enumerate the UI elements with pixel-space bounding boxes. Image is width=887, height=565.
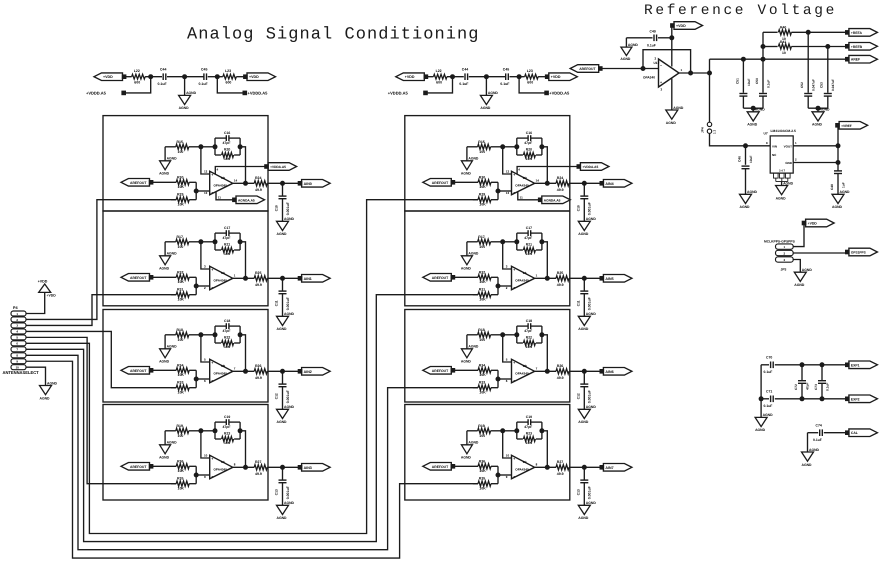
svg-text:R31: R31	[177, 288, 183, 292]
wire V+ pin	[517, 167, 577, 175]
svg-text:R34: R34	[177, 363, 183, 367]
wire JP4 to VIN	[710, 133, 771, 145]
wire VOUT	[793, 145, 838, 147]
svg-text:AGND: AGND	[186, 91, 197, 95]
node junction	[199, 145, 203, 149]
svg-text:−: −	[211, 379, 213, 383]
ground (output, U16D)	[277, 221, 289, 230]
svg-text:10K: 10K	[479, 185, 486, 189]
svg-text:AREFOUT: AREFOUT	[130, 465, 147, 469]
capacitor C13 0.001uF (output, U18C)	[583, 467, 585, 479]
svg-text:R27: R27	[255, 460, 261, 464]
svg-text:AGND: AGND	[586, 501, 597, 505]
svg-text:AGND: AGND	[461, 266, 472, 270]
svg-text:AGND: AGND	[284, 501, 295, 505]
wire pin6 to stage U18D	[26, 200, 478, 534]
resistor R26 49.9 (output, U18B)	[535, 370, 556, 372]
wire JP3 pin1 to +VDD flag	[793, 225, 804, 247]
wire JP3 pin3 to ground	[793, 260, 800, 273]
wire pin3 to stage U16A	[26, 295, 176, 326]
wire to -input	[196, 285, 210, 287]
svg-text:R18: R18	[177, 328, 183, 332]
svg-text:8: 8	[766, 141, 768, 145]
svg-text:10K: 10K	[178, 486, 185, 490]
resistor R33 10K (input, U16B)	[171, 387, 176, 389]
svg-text:R36: R36	[177, 459, 183, 463]
feedback left bar	[214, 233, 216, 250]
svg-text:10K: 10K	[178, 280, 185, 284]
svg-text:AGND: AGND	[840, 190, 851, 194]
wire to +input	[503, 242, 512, 269]
wire to JP4	[709, 73, 711, 122]
power flag AGNDA.A5 (U16D)	[233, 198, 237, 202]
junction	[761, 45, 765, 49]
op-amp U18A OPA4340	[512, 266, 535, 290]
svg-text:C74: C74	[816, 424, 822, 428]
output flag AIN1 (U16A)	[298, 277, 302, 281]
svg-text:AGND: AGND	[802, 463, 813, 467]
flag GPS1PPS	[846, 250, 850, 254]
svg-text:R22: R22	[526, 336, 532, 340]
ground (output, U16C)	[277, 505, 289, 514]
net stub +VDDD.A5 (right, bank B)	[519, 77, 545, 93]
node junction	[501, 240, 505, 244]
svg-text:VIN: VIN	[772, 144, 777, 148]
capacitor C50 0.1uF (ref)	[762, 59, 764, 93]
stage box 4 (bank A)	[103, 405, 268, 501]
op-amp U16C OPA4340	[210, 455, 233, 479]
resistor R35 10K (input, U16C)	[171, 483, 176, 485]
capacitor C17 47pF (feedback, U16A)	[215, 232, 226, 234]
ground (non-inv leg, U16C)	[160, 445, 171, 454]
input flag AREFOUT (U18A)	[423, 274, 452, 282]
junction	[641, 67, 645, 71]
output junction	[244, 276, 248, 280]
svg-text:+: +	[513, 268, 515, 272]
wire to divider	[762, 32, 764, 59]
ground (filter mid, bank B)	[480, 95, 492, 104]
svg-text:+VDD: +VDD	[103, 75, 113, 79]
power flag AGNDA.A5 (U18D)	[538, 198, 542, 202]
ground (JP3)	[794, 272, 806, 281]
capacitor C46 10uF (LM4140 in)	[745, 146, 747, 165]
power flag +VDD (right, bank A)	[244, 75, 248, 79]
capacitor C16 47pF (feedback, U16D)	[215, 137, 226, 139]
input flag AREFOUT (U16A)	[121, 274, 150, 282]
svg-text:11: 11	[520, 195, 524, 199]
svg-text:C44: C44	[160, 68, 166, 72]
svg-text:10K: 10K	[224, 345, 231, 349]
resistor R30 10K (input, U16D)	[152, 181, 176, 183]
resistor R27 49.9 (output, U18C)	[535, 466, 556, 468]
output flag AIN6 (U18B)	[600, 370, 604, 374]
svg-text:MCLKPPS-GPSPPS: MCLKPPS-GPSPPS	[764, 239, 796, 243]
svg-text:5: 5	[506, 358, 508, 362]
svg-text:R30: R30	[177, 175, 183, 179]
svg-text:R21: R21	[224, 243, 230, 247]
net stub +VDDD.A5 (left, bank A)	[125, 77, 150, 93]
resistor R20 10K (feedback, U16D)	[215, 154, 221, 156]
wire	[126, 76, 132, 78]
svg-text:R25: R25	[255, 271, 261, 275]
junction	[213, 333, 217, 337]
output flag AIN0 (U16D)	[298, 182, 302, 186]
svg-text:R33: R33	[177, 381, 183, 385]
svg-text:AGND: AGND	[167, 252, 178, 256]
svg-text:AGND: AGND	[277, 327, 288, 331]
ground (C46)	[740, 194, 752, 203]
svg-text:VOUT: VOUT	[784, 144, 793, 148]
wire	[466, 431, 468, 445]
svg-text:1 2: 1 2	[713, 129, 717, 134]
svg-text:600: 600	[226, 81, 232, 85]
power flag +VDDA.A5 (U18D)	[577, 165, 581, 169]
wire	[201, 430, 215, 432]
svg-text:1: 1	[16, 312, 18, 316]
svg-text:C13: C13	[275, 489, 279, 495]
resistor R41 10 (ref out B)	[763, 46, 778, 48]
junction	[149, 75, 153, 79]
svg-text:OPA4340: OPA4340	[214, 372, 228, 376]
ground (connector)	[40, 386, 52, 395]
stage box 2 (bank A)	[103, 211, 268, 306]
wire to -input	[196, 378, 210, 380]
wire	[167, 76, 204, 78]
feedback wire	[643, 50, 691, 73]
svg-text:14: 14	[536, 179, 540, 183]
svg-text:R40: R40	[780, 26, 786, 30]
svg-text:0.001uF: 0.001uF	[286, 201, 290, 215]
svg-text:10K: 10K	[178, 373, 185, 377]
svg-text:AGND: AGND	[159, 359, 170, 363]
svg-text:+VDDA.A5: +VDDA.A5	[582, 165, 598, 169]
resistor R22 10K (feedback, U18B)	[517, 342, 523, 344]
svg-text:AIN5: AIN5	[605, 277, 613, 281]
inductor L22 600 (bank A)	[132, 74, 146, 79]
junction	[496, 377, 500, 381]
svg-text:OPA4340: OPA4340	[515, 184, 529, 188]
junction	[183, 75, 187, 79]
svg-text:47pF: 47pF	[223, 141, 231, 145]
svg-text:C16: C16	[526, 131, 532, 135]
svg-text:L23: L23	[225, 69, 231, 73]
svg-text:+VDD: +VDD	[47, 293, 57, 297]
resistor R31 10K (input, U16A)	[171, 294, 176, 296]
wire to -input	[196, 190, 210, 192]
svg-text:+: +	[211, 173, 213, 177]
svg-text:47pF: 47pF	[805, 383, 809, 390]
svg-text:EXP2: EXP2	[851, 397, 860, 401]
output junction	[545, 465, 549, 469]
input flag AREFOUT (U18D)	[423, 179, 452, 187]
wire V- pin	[518, 192, 539, 200]
svg-text:AGND: AGND	[794, 283, 805, 287]
svg-text:0.047uF: 0.047uF	[812, 79, 816, 91]
svg-text:U17: U17	[654, 61, 660, 65]
svg-text:6: 6	[204, 379, 206, 383]
svg-text:C18: C18	[526, 319, 532, 323]
feedback right bar	[239, 422, 241, 439]
svg-text:C52: C52	[800, 82, 804, 88]
svg-text:13: 13	[506, 191, 510, 195]
capacitor C74 0.1uF (CAL)	[808, 432, 819, 434]
svg-text:3: 3	[783, 258, 785, 262]
svg-text:100: 100	[178, 338, 184, 342]
svg-text:C46: C46	[737, 156, 741, 162]
stage box 2 (bank B)	[405, 211, 570, 306]
ground (ref op-amp V-)	[666, 110, 678, 119]
svg-text:AGND: AGND	[159, 455, 170, 459]
output junction	[545, 369, 549, 373]
ground (non-inv leg, U18D)	[461, 161, 472, 170]
junction	[484, 75, 488, 79]
svg-text:11: 11	[218, 195, 222, 199]
ground (output, U16A)	[277, 316, 289, 325]
net stub +VDDD.A5 (right, bank A)	[217, 77, 243, 93]
svg-text:3 4 7: 3 4 7	[779, 170, 785, 173]
capacitor C11 0.001uF (output, U16A)	[282, 278, 284, 290]
connector P4 (ANTENNASELECT header)	[11, 311, 26, 316]
ground (ref caps 2)	[817, 108, 819, 112]
node junction	[501, 429, 505, 433]
svg-text:AIN7: AIN7	[605, 466, 613, 470]
junction	[496, 189, 500, 193]
svg-text:600: 600	[134, 81, 140, 85]
svg-text:AGND: AGND	[820, 108, 831, 112]
svg-text:0.1uF: 0.1uF	[766, 80, 770, 88]
svg-text:AGND: AGND	[167, 157, 178, 161]
stage box 3 (bank B)	[405, 310, 570, 403]
ground (CAL)	[802, 452, 814, 461]
input join bar	[497, 277, 499, 294]
svg-text:C19: C19	[526, 415, 532, 419]
svg-text:AGND: AGND	[284, 405, 295, 409]
resistor R31 10K (input, U18A)	[473, 294, 478, 296]
wire V- pin	[216, 192, 233, 200]
junction	[670, 36, 674, 40]
svg-text:AGND: AGND	[277, 420, 288, 424]
capacitor C44 0.1uF (bank A)	[162, 73, 164, 80]
svg-text:+: +	[211, 268, 213, 272]
resistor R25 49.9 (output, U16A)	[233, 277, 254, 279]
wire to +input	[503, 147, 512, 174]
svg-text:R23: R23	[526, 432, 532, 436]
capacitor C16 47pF (feedback, U18D)	[517, 137, 528, 139]
svg-text:49.9: 49.9	[255, 472, 262, 476]
svg-text:OPA4340: OPA4340	[214, 468, 228, 472]
wire to +input	[503, 431, 512, 458]
svg-text:10K: 10K	[526, 252, 533, 256]
svg-text:8: 8	[16, 354, 18, 358]
wire	[538, 76, 546, 78]
svg-text:47pF: 47pF	[223, 425, 231, 429]
ground (output, U18C)	[578, 505, 590, 514]
flag +REFB	[846, 45, 850, 49]
svg-text:+: +	[513, 361, 515, 365]
svg-text:10K: 10K	[224, 252, 231, 256]
junction	[761, 57, 765, 61]
resistor R24 49.9 (output, U16D)	[233, 182, 254, 184]
svg-text:AGND: AGND	[666, 121, 677, 125]
svg-text:AGND: AGND	[578, 516, 589, 520]
svg-text:10K: 10K	[526, 441, 533, 445]
svg-text:47pF: 47pF	[524, 425, 532, 429]
wire to ground	[485, 77, 487, 96]
capacitor C48 1uF (ref out)	[834, 170, 842, 172]
junction	[517, 75, 521, 79]
svg-text:R36: R36	[479, 459, 485, 463]
resistor R23 10K (feedback, U18C)	[517, 438, 523, 440]
junction	[515, 429, 519, 433]
svg-text:49.9: 49.9	[255, 283, 262, 287]
capacitor C45 0.1uF (bank B)	[505, 73, 507, 80]
output flag AIN5 (U18A)	[600, 277, 604, 281]
flag +VREF (ref output)	[836, 124, 840, 128]
svg-text:−: −	[513, 191, 515, 195]
capacitor C71 0.1uF (EXP2)	[761, 398, 769, 400]
svg-text:−: −	[211, 191, 213, 195]
svg-text:0.1uF: 0.1uF	[459, 82, 469, 86]
junction	[194, 284, 198, 288]
svg-text:OPA4340: OPA4340	[214, 184, 228, 188]
wire	[466, 335, 468, 349]
wire output rail	[709, 59, 711, 73]
capacitor C52 0.047uF (ref)	[807, 32, 809, 93]
svg-text:2: 2	[204, 286, 206, 290]
wire	[503, 430, 517, 432]
svg-text:+VDDD.A5: +VDDD.A5	[388, 91, 409, 96]
svg-text:C10: C10	[576, 205, 580, 211]
wire feedback to output	[542, 335, 547, 372]
power flag +VDD (left, bank A)	[94, 73, 123, 81]
net stub +VDDD.A5 (left, bank B)	[427, 77, 452, 93]
svg-text:L23: L23	[527, 69, 533, 73]
svg-text:−: −	[513, 286, 515, 290]
svg-text:AGND: AGND	[628, 43, 639, 47]
node junction	[199, 429, 203, 433]
svg-text:R15: R15	[478, 140, 484, 144]
inductor L22 600 (bank B)	[433, 74, 447, 79]
svg-text:49.9: 49.9	[557, 376, 564, 380]
svg-text:R35: R35	[177, 477, 183, 481]
svg-text:0.001uF: 0.001uF	[286, 296, 290, 310]
resistor R17 100 (U16A)	[165, 241, 176, 243]
svg-text:R20: R20	[526, 148, 532, 152]
svg-text:100: 100	[479, 338, 485, 342]
wire to ground	[184, 77, 186, 96]
svg-text:10K: 10K	[479, 486, 486, 490]
wire AREFOUT to -input	[601, 68, 659, 70]
resistor R33 10K (input, U18B)	[473, 387, 478, 389]
resistor R15 100 (U18D)	[467, 146, 478, 148]
junction	[496, 284, 500, 288]
svg-text:AGND: AGND	[159, 171, 170, 175]
svg-text:C71: C71	[766, 390, 772, 394]
input join bar	[195, 277, 197, 294]
output junction	[545, 181, 549, 185]
wire op-amp output	[679, 72, 710, 74]
output node junction	[582, 276, 586, 280]
svg-text:GND: GND	[785, 161, 793, 165]
svg-text:10K: 10K	[178, 202, 185, 206]
svg-text:C44: C44	[462, 68, 468, 72]
input join bar	[195, 182, 197, 199]
svg-text:+: +	[513, 173, 515, 177]
svg-text:9: 9	[506, 475, 508, 479]
wire +VREF down	[837, 127, 839, 171]
svg-text:AIN1: AIN1	[304, 277, 312, 281]
feedback left bar	[214, 326, 216, 343]
feedback right bar	[541, 233, 543, 250]
capacitor C10 0.001uF (output, U18D)	[583, 183, 585, 195]
resistor R36 10K (input, U18C)	[454, 465, 478, 467]
input flag AREFOUT (U16B)	[121, 367, 150, 375]
svg-text:JP4: JP4	[701, 127, 705, 133]
svg-text:49.9: 49.9	[557, 283, 564, 287]
svg-text:AREFOUT: AREFOUT	[579, 67, 596, 71]
ground (C48)	[832, 194, 844, 203]
wire	[743, 107, 763, 109]
junction	[515, 145, 519, 149]
svg-text:AGND: AGND	[802, 268, 813, 272]
svg-text:OPA4340: OPA4340	[515, 372, 529, 376]
feedback right bar	[239, 138, 241, 155]
svg-text:AGNDA.A5: AGNDA.A5	[544, 198, 561, 202]
wire to -input	[498, 285, 512, 287]
svg-text:R32: R32	[479, 270, 485, 274]
ground (non-inv leg, U16B)	[160, 349, 171, 358]
svg-text:P4: P4	[13, 306, 19, 310]
svg-text:AGND: AGND	[468, 441, 479, 445]
svg-text:0.1uF: 0.1uF	[199, 82, 209, 86]
svg-text:R35: R35	[479, 477, 485, 481]
svg-text:AGND: AGND	[468, 345, 479, 349]
junction	[836, 144, 840, 148]
svg-text:49.9: 49.9	[255, 188, 262, 192]
svg-text:AGND: AGND	[586, 217, 597, 221]
svg-text:AIN2: AIN2	[304, 370, 312, 374]
jumper JP4	[707, 122, 711, 126]
svg-text:AGND: AGND	[461, 359, 472, 363]
wire	[208, 76, 223, 78]
svg-text:+VREF: +VREF	[841, 124, 852, 128]
svg-text:OPA340: OPA340	[643, 76, 655, 80]
svg-text:AIN4: AIN4	[605, 182, 613, 186]
svg-text:JP3: JP3	[781, 267, 787, 271]
svg-text:R29: R29	[479, 193, 485, 197]
svg-text:9: 9	[204, 475, 206, 479]
ground (ref caps 1)	[752, 108, 754, 112]
svg-text:C19: C19	[224, 415, 230, 419]
output node junction	[281, 369, 285, 373]
svg-text:AREF: AREF	[851, 58, 860, 62]
power flag +VDD (ref op-amp)	[671, 24, 675, 28]
svg-text:R17: R17	[478, 235, 484, 239]
svg-text:R26: R26	[557, 364, 563, 368]
capacitor C44 0.1uF (bank B)	[464, 73, 466, 80]
svg-text:AGND: AGND	[277, 516, 288, 520]
svg-text:+VDDD.A5: +VDDD.A5	[86, 91, 107, 96]
svg-text:49.9: 49.9	[255, 376, 262, 380]
feedback left bar	[214, 138, 216, 155]
wire	[503, 241, 517, 243]
stage box 1 (bank A)	[103, 116, 268, 211]
svg-text:10uF: 10uF	[747, 79, 751, 86]
svg-text:49.9: 49.9	[557, 188, 564, 192]
svg-text:+VDD: +VDD	[38, 279, 48, 283]
svg-text:C11: C11	[576, 300, 580, 306]
svg-text:2: 2	[16, 318, 18, 322]
